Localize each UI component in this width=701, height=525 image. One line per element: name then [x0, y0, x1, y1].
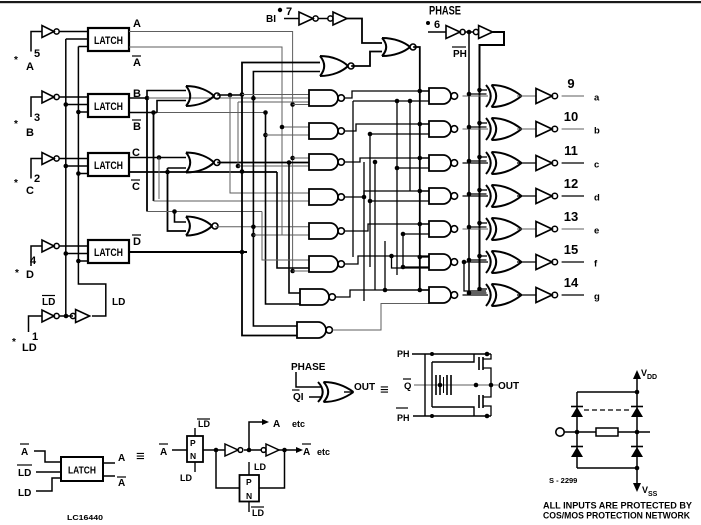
- wire cross v397: [353, 99, 429, 275]
- wire nand to xor c: [463, 162, 489, 164]
- nand gate M5: [309, 223, 344, 239]
- svg-text:LATCH: LATCH: [94, 35, 123, 47]
- nand gate M2: [309, 123, 344, 139]
- legend tg box1: [187, 428, 203, 472]
- svg-text:LATCH: LATCH: [94, 101, 123, 113]
- wire C output to gate: [129, 157, 186, 159]
- nor gate G4 top middle: [320, 56, 354, 76]
- inverter output d: [536, 189, 558, 204]
- wire latch C load inputs: [66, 166, 88, 174]
- svg-text:a: a: [594, 93, 600, 104]
- protection diode D1: [571, 407, 583, 418]
- legend phase xor symbol: [296, 372, 354, 402]
- svg-text:LD: LD: [180, 473, 192, 483]
- svg-text:A: A: [133, 57, 141, 69]
- label latch output A: [133, 18, 141, 30]
- inverter output c: [536, 156, 558, 171]
- legend inverter 1: [225, 444, 243, 456]
- svg-text:PH: PH: [397, 349, 410, 359]
- wire cross node line: [147, 209, 262, 214]
- svg-text:g: g: [594, 292, 600, 303]
- svg-text:C: C: [132, 181, 140, 193]
- wire trunk v238: [236, 102, 309, 168]
- wire f-gate lower feed: [392, 256, 430, 268]
- label segment g: [594, 292, 600, 303]
- wire cross v385: [383, 241, 429, 292]
- inverter PHASE second: [473, 26, 492, 39]
- svg-text:SS: SS: [648, 491, 658, 498]
- nand gate out-c: [429, 155, 458, 171]
- svg-text:A: A: [26, 61, 34, 73]
- wire NOR3 inputs: [175, 212, 187, 223]
- wire nand to xor d: [463, 195, 489, 197]
- legend feedback tg box2: [240, 475, 260, 502]
- wire xor to inverter a: [517, 95, 536, 97]
- wire cross v364: [362, 162, 367, 301]
- svg-text:2: 2: [34, 173, 40, 185]
- protection VDD rail: [635, 374, 640, 484]
- wire output f pin 15: [562, 242, 584, 262]
- svg-text:B: B: [26, 127, 34, 139]
- wire nand to xor f: [463, 261, 489, 263]
- nand gate out-f: [429, 254, 458, 270]
- protection left rail: [575, 392, 580, 468]
- svg-text:5: 5: [34, 48, 40, 60]
- wire cross v410: [408, 99, 413, 191]
- input A terminal pin 5: [14, 32, 42, 74]
- wire NOR2 output: [217, 160, 309, 165]
- wire nand to xor a: [463, 95, 489, 97]
- inverter buffer input C: [42, 153, 88, 165]
- svg-text:A: A: [133, 18, 141, 30]
- input B terminal pin 3: [14, 97, 42, 139]
- svg-text:LD: LD: [254, 462, 266, 472]
- inverter output f: [536, 255, 558, 270]
- label segment b: [594, 126, 600, 137]
- note protection text: [543, 501, 692, 521]
- wire C-bar output: [129, 170, 277, 175]
- legend latch outputs: [103, 453, 126, 489]
- svg-text:11: 11: [564, 143, 578, 158]
- svg-text:D: D: [26, 269, 34, 281]
- label latch output D-bar: [132, 235, 141, 248]
- wire xor to inverter b: [517, 128, 536, 130]
- nand gate out-d: [429, 188, 458, 204]
- svg-text:N: N: [246, 491, 252, 501]
- label latch output B-bar: [132, 120, 141, 133]
- nand gate out-e: [429, 221, 458, 237]
- svg-text:LC16440: LC16440: [67, 515, 103, 522]
- inverter BI second: [328, 12, 347, 25]
- wire xor to inverter d: [517, 195, 536, 197]
- label S-2299: [549, 476, 577, 485]
- inverter PHASE: [446, 26, 473, 39]
- wire M1 out to a-gate: [345, 91, 429, 98]
- legend latch symbol inputs: [17, 444, 32, 499]
- wire B-bar output: [129, 110, 268, 115]
- svg-text:15: 15: [564, 242, 578, 257]
- wire output d pin 12: [562, 176, 584, 196]
- svg-text:N: N: [190, 451, 196, 461]
- svg-text:LD: LD: [22, 342, 37, 354]
- protection VSS terminal: [633, 483, 658, 498]
- inverter buffer input A: [42, 26, 88, 38]
- svg-text:LD: LD: [252, 508, 264, 518]
- svg-text:QI: QI: [293, 392, 304, 403]
- svg-text:BI: BI: [266, 14, 276, 25]
- wire M4 out to d-gate: [345, 191, 429, 197]
- nor gate G1 row B: [186, 86, 220, 106]
- protection dashed link: [584, 409, 630, 411]
- label segment f: [594, 259, 598, 270]
- wire BI to nor: [347, 19, 382, 44]
- label segment c: [594, 160, 599, 171]
- border top rule: [0, 1, 701, 3]
- svg-text:D: D: [133, 236, 141, 248]
- nand gate out-g: [429, 287, 458, 303]
- wire BI mid: [318, 18, 328, 20]
- wire blanking trunk: [413, 47, 429, 292]
- wire phase into xor e: [467, 221, 487, 230]
- svg-text:A: A: [118, 478, 125, 489]
- wire cross v464 f-to-g: [462, 260, 486, 291]
- legend feedback wires: [216, 450, 285, 488]
- svg-text:6: 6: [434, 19, 440, 31]
- label latch output C-bar: [131, 180, 140, 193]
- wire B output: [129, 96, 309, 101]
- legend phase xor label: [291, 362, 326, 373]
- svg-text:A: A: [118, 453, 125, 464]
- wire cross v370: [368, 132, 429, 267]
- wire B-bar trunk down: [154, 113, 310, 202]
- xor gate b: [486, 118, 522, 140]
- label segment a: [594, 93, 600, 104]
- svg-text:P: P: [190, 438, 196, 448]
- svg-text:c: c: [594, 160, 599, 171]
- svg-text:e: e: [594, 226, 599, 237]
- legend box2 labels: [249, 462, 266, 518]
- legend tg mosfet bottom: [479, 385, 491, 416]
- legend node A-bar etc: [279, 444, 330, 458]
- protection top rail: [577, 391, 637, 393]
- wire PH-bar trunk: [468, 32, 470, 293]
- svg-text:9: 9: [567, 76, 574, 91]
- svg-text:PHASE: PHASE: [291, 362, 326, 373]
- wire nand to xor e: [463, 228, 489, 230]
- svg-text:LD: LD: [198, 419, 210, 429]
- legend OUT label 1: [344, 382, 375, 393]
- input LD terminal pin 1: [12, 316, 42, 354]
- wire cross v403: [401, 232, 429, 270]
- svg-text:P: P: [246, 477, 252, 487]
- xor gate f: [486, 251, 522, 273]
- wire phase into xor g: [467, 287, 487, 296]
- nand gate M4: [309, 189, 344, 205]
- legend tg wire mid: [203, 448, 225, 453]
- wire M7 out to g-gate: [336, 290, 429, 297]
- wire phase into xor d: [467, 188, 487, 197]
- input PHASE pin 6: [426, 4, 461, 33]
- xor gate e: [486, 218, 522, 240]
- inverter BI first: [299, 12, 318, 25]
- svg-text:PH: PH: [397, 413, 410, 423]
- wire nand to xor g: [463, 294, 489, 296]
- svg-text:*: *: [14, 55, 18, 66]
- legend latch box: [61, 457, 103, 481]
- label latch output B: [133, 88, 141, 100]
- svg-text:etc: etc: [292, 419, 305, 429]
- nand gate M1: [309, 90, 344, 106]
- svg-text:10: 10: [564, 109, 578, 124]
- wire xor to inverter c: [517, 162, 536, 164]
- xor gate g: [486, 284, 522, 306]
- wire B trunk down: [146, 98, 148, 212]
- latch B: [88, 94, 129, 117]
- label latch output C: [132, 147, 140, 159]
- svg-text:3: 3: [34, 112, 40, 124]
- wire trunk v277: [277, 172, 309, 268]
- wire xor to inverter g: [517, 294, 536, 296]
- protection diode D2: [631, 407, 643, 418]
- inverter output b: [536, 122, 558, 137]
- svg-text:OUT: OUT: [354, 382, 375, 393]
- protection bottom rail: [577, 467, 637, 469]
- wire latch D load inputs: [66, 254, 88, 262]
- nor gate G5 blanking: [382, 38, 416, 56]
- svg-text:13: 13: [564, 209, 578, 224]
- svg-text:12: 12: [564, 176, 578, 191]
- svg-text:B: B: [133, 121, 141, 133]
- legend node A etc: [247, 419, 305, 452]
- legend tg frame: [425, 354, 474, 416]
- svg-text:A: A: [160, 447, 167, 458]
- protection diode D4: [631, 447, 643, 458]
- protection resistor R1: [596, 428, 650, 436]
- wire output b pin 10: [562, 109, 584, 129]
- nor gate G2 row C: [186, 153, 220, 173]
- wire cross v375: [373, 160, 378, 290]
- wire output e pin 13: [562, 209, 584, 229]
- svg-text:7: 7: [286, 6, 292, 18]
- legend tg input A-bar: [159, 444, 187, 458]
- svg-text:LD: LD: [18, 488, 31, 499]
- legend QI label: [292, 390, 304, 403]
- legend tg Q-bar rail: [403, 379, 519, 392]
- wire latch B load inputs: [66, 105, 88, 113]
- svg-text:≡: ≡: [380, 382, 389, 399]
- inverter output g: [536, 288, 558, 303]
- label segment e: [594, 226, 599, 237]
- wire NOR1 output: [217, 92, 244, 97]
- inverter buffer input D: [42, 240, 88, 252]
- label PH-bar: [452, 47, 467, 60]
- wire latch A load inputs: [66, 39, 88, 47]
- svg-text:14: 14: [564, 275, 579, 290]
- svg-text:d: d: [594, 193, 600, 204]
- input BI pin 7: [266, 6, 299, 25]
- nand gate M8: [297, 322, 332, 338]
- wire trunk v265: [263, 113, 300, 305]
- svg-text:COS/MOS PROTECTION NETWORK: COS/MOS PROTECTION NETWORK: [543, 511, 690, 521]
- wire output a pin 9: [562, 76, 584, 96]
- inverter LD first: [42, 310, 73, 322]
- svg-text:*: *: [15, 268, 19, 279]
- wire output c pin 11: [562, 143, 584, 163]
- xor gate c: [486, 152, 522, 174]
- inverter buffer input B: [42, 91, 88, 103]
- wire NOR1 inputs: [147, 91, 186, 113]
- wire LD trunk to latches: [76, 47, 106, 317]
- nand gate M7: [300, 289, 335, 305]
- protection input terminal: [556, 428, 596, 436]
- svg-text:Q: Q: [404, 381, 411, 392]
- wire trunk v289: [289, 163, 300, 294]
- svg-text:LATCH: LATCH: [68, 465, 96, 477]
- wire NOR3 output: [215, 225, 309, 230]
- wire trunk v253 to top nor: [251, 72, 320, 327]
- svg-text:DD: DD: [647, 374, 657, 381]
- wire C-bar branch to NOR3: [168, 168, 187, 231]
- wire A trunk feeds: [242, 95, 309, 272]
- wire phase into xor b: [467, 121, 487, 130]
- wire nand to xor b: [463, 128, 489, 130]
- label LC16440: [67, 515, 103, 522]
- wire PH loop: [480, 32, 505, 289]
- latch C: [88, 153, 129, 176]
- wire M8 out to g-gate lower: [333, 301, 429, 330]
- svg-text:S - 2299: S - 2299: [549, 476, 577, 485]
- protection diode D3: [571, 447, 583, 458]
- svg-text:*: *: [12, 337, 16, 348]
- latch D: [88, 240, 129, 263]
- input C terminal pin 2: [14, 159, 42, 198]
- xor gate d: [486, 185, 522, 207]
- wire output g pin 14: [562, 275, 584, 295]
- legend inverter 2: [244, 444, 279, 456]
- legend latch input wires: [34, 451, 61, 491]
- svg-text:≡: ≡: [136, 448, 145, 465]
- svg-text:etc: etc: [317, 447, 330, 457]
- svg-text:*: *: [14, 119, 18, 130]
- svg-text:*: *: [14, 178, 18, 189]
- wire M3 out to c-gate: [345, 158, 429, 162]
- label segment d: [594, 193, 600, 204]
- wire A-bar trunk feeds: [280, 125, 309, 130]
- wire M2 out to b-gate: [345, 124, 429, 131]
- wire A-bar to column: [129, 47, 309, 235]
- inverter LD second: [70, 310, 89, 323]
- inverter output a: [536, 89, 558, 104]
- nor gate G3 row D: [186, 217, 218, 236]
- wire LD-bar trunk to latches: [64, 39, 69, 316]
- legend tg PH rail: [397, 349, 491, 359]
- wire NOR1 branch down to gate row: [230, 96, 309, 194]
- wire C branch stub: [157, 155, 162, 199]
- legend tg PH-bar rail: [396, 408, 491, 423]
- svg-text:4: 4: [30, 255, 37, 267]
- input D terminal pin 4: [15, 246, 42, 281]
- wire D-bar output long: [130, 251, 247, 253]
- wire trunk v242 to top nor and M8: [240, 63, 320, 336]
- legend equivalence sign 2: [380, 382, 389, 399]
- legend tg transmission bars: [432, 362, 451, 407]
- legend tg box1 labels: [180, 419, 210, 483]
- svg-text:b: b: [594, 126, 600, 137]
- wire phase into xor f: [467, 254, 487, 263]
- wire M5 out to e-gate: [345, 224, 429, 231]
- label LD-bar: [42, 296, 55, 309]
- wire xor to inverter f: [517, 261, 536, 263]
- wire phase into xor c: [467, 155, 487, 164]
- svg-text:LD: LD: [112, 297, 125, 308]
- wire phase into xor a: [467, 88, 487, 97]
- svg-text:PHASE: PHASE: [429, 4, 461, 18]
- nand gate M3: [309, 154, 344, 170]
- label LD: [112, 297, 125, 308]
- svg-text:A: A: [21, 447, 28, 458]
- nand gate out-a: [429, 88, 458, 104]
- svg-text:ALL INPUTS ARE PROTECTED BY: ALL INPUTS ARE PROTECTED BY: [543, 501, 692, 511]
- legend tg mosfet top: [479, 354, 493, 387]
- wire A to column: [129, 32, 295, 274]
- wire M6 out to f-gate: [345, 254, 429, 264]
- legend equivalence sign: [136, 448, 145, 465]
- wire xor to inverter e: [517, 228, 536, 230]
- latch A: [88, 28, 129, 51]
- label latch output A-bar: [132, 56, 141, 69]
- svg-text:A: A: [273, 419, 280, 430]
- inverter output e: [536, 222, 558, 237]
- protection VDD terminal: [633, 368, 657, 381]
- svg-text:PH: PH: [453, 49, 467, 60]
- nand gate M6: [309, 256, 344, 272]
- svg-text:LATCH: LATCH: [94, 247, 123, 259]
- svg-text:LD: LD: [18, 468, 31, 479]
- xor gate a: [486, 85, 522, 107]
- svg-text:A: A: [303, 447, 310, 458]
- svg-text:LATCH: LATCH: [94, 160, 123, 172]
- svg-text:LD: LD: [42, 297, 55, 308]
- wire NOR4 output: [351, 52, 382, 67]
- nand gate out-b: [429, 121, 458, 137]
- svg-text:C: C: [26, 185, 34, 197]
- wire trunk v262: [262, 212, 309, 261]
- svg-text:OUT: OUT: [498, 381, 519, 392]
